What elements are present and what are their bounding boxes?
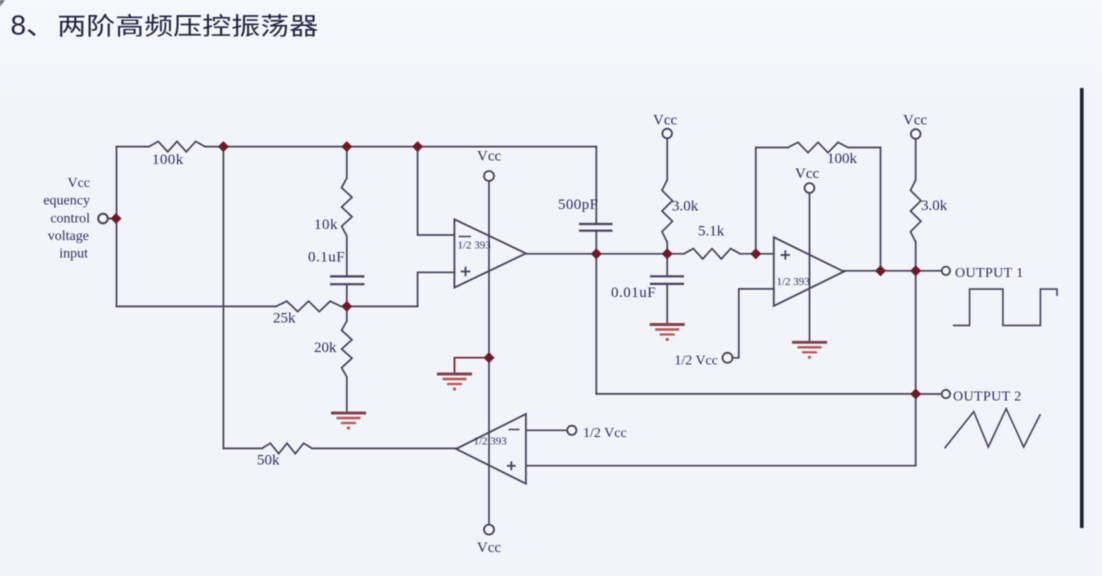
terminal: 1/2 Vcc (U3 minus) — [567, 426, 576, 435]
terminal: Vcc (U1) — [484, 171, 494, 181]
node: input junction — [110, 213, 121, 224]
capacitor 500pF — [579, 223, 613, 225]
wire: 0.01uF bottom to ground — [666, 284, 668, 323]
svg-text:1/2 393: 1/2 393 — [458, 240, 492, 252]
wire: left vertical x=116.5 — [116, 147, 118, 307]
ground (0.01uF) — [650, 323, 685, 326]
wire: 25k rail y=306.4 — [117, 305, 277, 307]
terminal: OUTPUT 2 — [942, 390, 950, 398]
terminal: Vcc (U3 bottom) — [484, 525, 494, 535]
op-amp U3 1/2 393 (mirrored, points left) — [456, 414, 526, 484]
node: U1 out / 500pF — [591, 248, 602, 259]
svg-text:0.01uF: 0.01uF — [611, 285, 656, 301]
svg-text:Vcc: Vcc — [477, 540, 501, 556]
wire: U1 output / main mid rail y=253.8 — [526, 253, 684, 255]
capacitor 0.1uF — [330, 275, 365, 277]
svg-text:100k: 100k — [827, 151, 858, 167]
svg-text:100k: 100k — [152, 152, 184, 168]
wire: U1 plus input riser — [418, 272, 455, 306]
wire: U2 minus input path from 1/2 Vcc — [733, 289, 774, 358]
wire: OUTPUT2 rail y=393.9 — [596, 393, 915, 395]
svg-text:Vcc: Vcc — [903, 113, 927, 129]
svg-text:3.0k: 3.0k — [921, 198, 948, 214]
wire: 500pF bottom connection — [595, 231, 597, 254]
wire: junction to 20k top — [346, 306, 348, 321]
resistor 20k — [342, 321, 352, 377]
wire: 0.01uF top connection — [666, 254, 668, 276]
wire: 10k/0.1uF branch vertical x=346.8 top — [346, 147, 348, 178]
svg-text:1/2 Vcc: 1/2 Vcc — [583, 426, 627, 441]
node: 25k/20k junction — [341, 301, 352, 312]
wire: top rail y=146.6 from left vertical to 500pF corner — [117, 146, 150, 148]
wire: 100k feedback top rail y=147.5 — [756, 147, 788, 149]
op-amp U2 1/2 393 — [774, 237, 844, 306]
svg-text:Vcc: Vcc — [795, 166, 819, 182]
terminal: Vcc (3.0k left) — [662, 129, 672, 139]
node: top rail x=346.8 — [341, 141, 352, 152]
resistor 100k (feedback) — [788, 142, 848, 152]
wire: ground tap at node (489,357.7) — [455, 358, 490, 372]
square wave icon (OUTPUT 1) — [953, 289, 1057, 325]
svg-text:0.1uF: 0.1uF — [308, 250, 345, 266]
terminal: OUTPUT 1 — [942, 267, 950, 275]
node: U2 out / feedback — [875, 265, 886, 276]
svg-text:Vcc: Vcc — [653, 113, 677, 129]
resistor 25k — [276, 301, 341, 311]
node: OUTPUT2 tap — [910, 388, 921, 399]
svg-text:input: input — [59, 247, 88, 262]
wire: output vertical x=915.7 down to bottom rail — [915, 271, 917, 466]
right border bar — [1080, 88, 1084, 528]
wire: U1 minus input drop from top rail — [418, 147, 455, 235]
ground (20k) — [331, 412, 366, 415]
wire: U2 output rail y=270.8 — [844, 270, 941, 272]
svg-text:control: control — [50, 212, 90, 227]
svg-text:25k: 25k — [273, 311, 296, 327]
triangle wave icon (OUTPUT 2) — [945, 409, 1041, 449]
wire: triangle-out vertical x=596.3 down to OUTPUT2 rail — [595, 254, 597, 394]
wire: U2 Vcc vertical through amp to ground — [809, 193, 811, 341]
terminal: control voltage input — [98, 214, 108, 224]
page corner mark — [0, 0, 5, 7]
svg-text:1/2 Vcc: 1/2 Vcc — [674, 354, 718, 369]
terminal: Vcc (3.0k right) — [911, 129, 921, 139]
capacitor 0.01uF — [650, 275, 684, 277]
wire: U3 minus stub to 1/2 Vcc — [526, 429, 567, 431]
node: OUTPUT1 / 3.0k — [910, 265, 921, 276]
svg-text:20k: 20k — [314, 340, 337, 356]
svg-text:OUTPUT 1: OUTPUT 1 — [955, 266, 1024, 281]
wire: input stub — [108, 218, 117, 220]
svg-text:500pF: 500pF — [558, 197, 598, 213]
op-amp U1 1/2 393 — [454, 219, 526, 287]
svg-text:1/2 393: 1/2 393 — [474, 436, 508, 448]
svg-text:3.0k: 3.0k — [672, 199, 699, 215]
wire: right Vcc to 3.0k — [915, 139, 917, 180]
svg-text:8: 8 — [11, 10, 27, 41]
node: 3.0k / 0.01uF — [662, 248, 673, 259]
svg-text:Vcc: Vcc — [67, 176, 90, 191]
svg-text:10k: 10k — [314, 217, 338, 233]
resistor 3.0k (left) — [662, 180, 672, 242]
terminal: 1/2 Vcc (U2 minus) — [723, 353, 733, 363]
resistor R1 100k (top left) — [149, 141, 205, 151]
resistor 3.0k (right) — [911, 180, 921, 242]
resistor 5.1k — [684, 249, 740, 259]
svg-text:5.1k: 5.1k — [698, 224, 725, 240]
svg-text:1/2 393: 1/2 393 — [777, 276, 811, 288]
resistor 10k — [342, 178, 352, 236]
wire: 20k bottom to ground — [346, 377, 348, 412]
resistor 50k — [262, 443, 312, 453]
svg-text:OUTPUT 2: OUTPUT 2 — [953, 390, 1022, 405]
wire: feedback right vertical x=880.5 — [880, 148, 882, 271]
wire: Vcc to 3.0k left — [666, 139, 668, 180]
svg-text:voltage: voltage — [48, 229, 89, 244]
label: input text block — [43, 176, 90, 262]
svg-text:50k: 50k — [257, 453, 280, 469]
ground (U2) — [792, 341, 827, 344]
svg-text:equency: equency — [43, 194, 90, 209]
wire: feedback vertical x=223.4 (top rail to 50k) — [222, 147, 224, 449]
wire: U3 output / 50k rail y=448.4 — [223, 447, 262, 449]
wire: U1 Vcc vertical x=489 (top circle through both amps to bottom circle) — [488, 182, 490, 525]
node: Vcc power tap — [483, 352, 494, 363]
title: 8、两阶高频压控振荡器 — [11, 10, 318, 41]
node: 5.1k / feedback riser — [750, 248, 761, 259]
wire: bottom rail y=465.7 to U3 plus input — [526, 465, 916, 467]
terminal: Vcc (U2) — [805, 183, 815, 193]
wire: 500pF top connection — [595, 147, 597, 224]
wire: node to U2 riser x=755.8 — [755, 148, 757, 254]
svg-text:Vcc: Vcc — [477, 149, 501, 165]
node: top rail x=223.4 — [218, 141, 229, 152]
node: top rail x=417.6 — [412, 141, 423, 152]
ground (U1 power tap) — [437, 373, 472, 376]
